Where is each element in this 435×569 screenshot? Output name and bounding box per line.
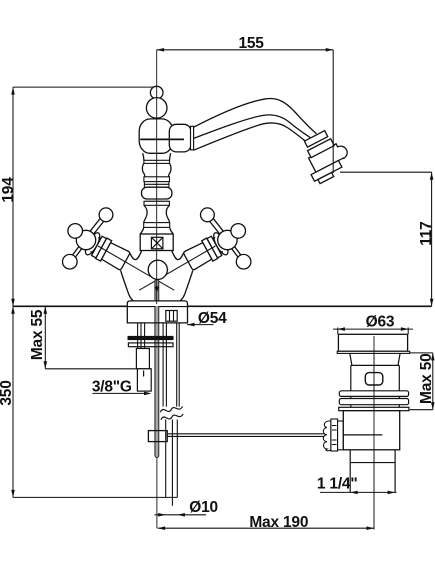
tailpipe: [350, 450, 395, 493]
aerator assembly: [296, 126, 355, 186]
faucet body bell outline right valley: [172, 251, 184, 260]
dim 194 arrows: [11, 87, 15, 306]
waste ring 2: [339, 399, 408, 405]
torus ring: [142, 187, 172, 199]
hose nut lower: [137, 369, 151, 391]
lift rod guide box: [166, 311, 177, 322]
pipe break symbol: [160, 406, 182, 412]
faucet body bell outline left lower: [121, 271, 133, 301]
spout curve mid: [194, 115, 311, 139]
lower ball: [63, 254, 78, 269]
dim 155 line: [157, 49, 334, 51]
dim Max190 line: [158, 527, 374, 529]
main bulge: [139, 119, 173, 153]
dim Max50 ext lines: [410, 353, 433, 410]
X square: [151, 237, 163, 249]
front ball: [68, 224, 83, 239]
svg-text:Ø10: Ø10: [189, 499, 218, 516]
ext line right of 155: [332, 50, 334, 173]
faucet flange dome: [127, 301, 187, 306]
pop-up linkage rod: [167, 434, 325, 437]
deck line: [13, 305, 432, 307]
label 3/8G leader: [92, 392, 146, 394]
aerator bottom band: [311, 160, 342, 181]
waste shoulder: [350, 353, 400, 365]
supply hose 1: [138, 323, 145, 349]
pop-up knob: [148, 260, 167, 279]
ext line top of 117: [340, 171, 432, 173]
pivot rod line: [343, 434, 382, 436]
neck under bulge: [143, 153, 171, 160]
band 3: [144, 201, 169, 205]
dim 117 arrows: [430, 172, 434, 306]
mounting washer: [128, 336, 173, 339]
tailpipe joint line: [350, 462, 395, 464]
ext line bottom of 350: [13, 496, 177, 498]
svg-text:350: 350: [0, 380, 15, 405]
svg-text:Max 190: Max 190: [249, 514, 308, 531]
column X-block: [140, 234, 173, 251]
spout connector: [169, 124, 191, 152]
collar band 1: [304, 131, 327, 147]
dim 1 1/4 line: [320, 491, 397, 493]
spout curve bottom: [194, 123, 305, 150]
ball top small: [150, 86, 163, 99]
lift rod: [155, 280, 159, 458]
band 4: [144, 223, 170, 228]
baluster: [142, 163, 171, 176]
dim Max50 line: [432, 353, 434, 410]
ext line top of 194: [13, 86, 157, 88]
centerline extension to Max190: [156, 457, 158, 528]
connector ring: [191, 126, 194, 150]
svg-text:155: 155: [238, 35, 264, 52]
knurled nut inner: [338, 421, 344, 450]
faucet mounting box below deck: [127, 306, 187, 323]
faucet body bell outline right lower: [180, 271, 192, 301]
band 1: [144, 160, 170, 163]
handle right (mirror): [182, 208, 250, 272]
waste cap lip: [337, 351, 410, 353]
bulge seam: [140, 138, 184, 140]
lift rod clamp: [148, 431, 167, 442]
waste cap: [338, 334, 407, 351]
trumpet flare: [140, 227, 173, 234]
valve axis diagonal right: [139, 246, 215, 290]
faucet centerline: [156, 50, 158, 304]
waste washer: [339, 407, 409, 410]
handle left: [63, 208, 131, 272]
valve axis diagonal left: [98, 246, 174, 290]
hose nut upper: [136, 349, 149, 369]
arm to top ball: [90, 218, 104, 234]
waste lower body: [343, 411, 399, 450]
faucet body bell outline left valley: [130, 251, 142, 260]
svg-text:117: 117: [418, 221, 435, 245]
dim Max55 line: [44, 306, 46, 369]
knurled nut mid: [331, 419, 338, 451]
knurled nut outer scallop: [323, 421, 331, 451]
svg-text:Max 55: Max 55: [29, 309, 46, 360]
label O54 leader: [187, 324, 214, 326]
dim O63 line: [333, 328, 413, 330]
ball mid: [146, 98, 167, 119]
svg-text:Ø63: Ø63: [366, 314, 395, 331]
arm to lower ball: [73, 247, 82, 257]
redraw centerline over waste: [373, 336, 375, 530]
dim 194 line: [12, 87, 14, 306]
top ball: [99, 208, 113, 222]
ext line bottom of Max55: [45, 368, 151, 370]
spout curve top: [194, 99, 317, 134]
hub ball: [76, 230, 95, 249]
waist band: [145, 199, 168, 201]
hose tail tick: [143, 371, 145, 377]
svg-text:194: 194: [0, 177, 17, 203]
ring line: [144, 183, 169, 185]
waste body window: [365, 373, 383, 385]
svg-text:Max 50: Max 50: [418, 353, 435, 404]
dim 350 line: [12, 306, 14, 497]
handle stem: [89, 234, 131, 271]
waste body: [351, 365, 400, 407]
waste ring 1: [339, 391, 408, 397]
spool: [144, 205, 170, 222]
aerator end face: [318, 172, 334, 183]
dim 117 line: [431, 172, 433, 306]
pop-up waste centerline: [373, 336, 375, 530]
collar band 2: [308, 139, 335, 158]
handle skirt: [83, 231, 103, 257]
svg-text:1 1/4": 1 1/4": [317, 476, 358, 493]
dim 155 arrows: [157, 48, 334, 52]
dim 350 arrows: [11, 306, 15, 497]
knurl ticks: [332, 426, 337, 445]
dim O10 line: [155, 514, 207, 516]
shank pipe below break: [166, 420, 178, 498]
mounting nut: [128, 343, 173, 347]
dim O63 ext ticks: [338, 328, 408, 335]
shank pipe above break: [163, 323, 179, 407]
dim Max55 arrows: [44, 306, 48, 369]
band 2: [144, 177, 170, 182]
aerator can: [309, 141, 350, 173]
